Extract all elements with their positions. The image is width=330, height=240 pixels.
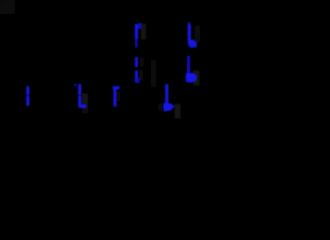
dim tip at top [188,22,191,26]
bright upper N=N bond [135,24,138,39]
faint smudge right of chain 1 middle [140,58,144,68]
azide chain 1 (vertical, x~136) [136,23,141,83]
node N5: vertical bond with wedge arrowhead at bottom [163,84,175,111]
faint label smudge right of N4 [116,91,120,101]
faint label smudge right of N3 [82,94,88,114]
lower N-N segment [135,71,138,83]
foot flaring right-down [188,40,197,48]
wedge arrowhead at bottom of chain 2 [186,73,197,83]
faint label smudge around chain 2 bottom wedge [193,71,199,86]
faint bond halo between chain 1 and N5 [151,60,156,87]
middle N-N segment [135,57,138,67]
faint label smudge right of N5 wedge [175,104,181,119]
faint smudge left of N5 wedge [159,104,162,112]
faint smudge right of chain 1 bottom [139,70,143,80]
faint label smudge top-left corner [0,0,15,14]
lower N-N bond [187,56,190,73]
bond chain at N3: vertical N-N bond plus stub to next atom (L shape) [75,84,87,108]
azide chain 2 (vertical, x~189) [186,22,197,83]
dim continuation [135,39,138,48]
faint label smudge right of chain 2 top [194,26,200,43]
bond N1-N2 (vertical N-N bond, far left) [26,86,30,106]
bright upper N=N bond [188,25,191,35]
bond at N4: top stub right plus vertical N-N bond [113,87,120,107]
top-right blob of chain 1 [138,23,141,29]
faint label smudge right of chain 1 top [141,24,146,40]
